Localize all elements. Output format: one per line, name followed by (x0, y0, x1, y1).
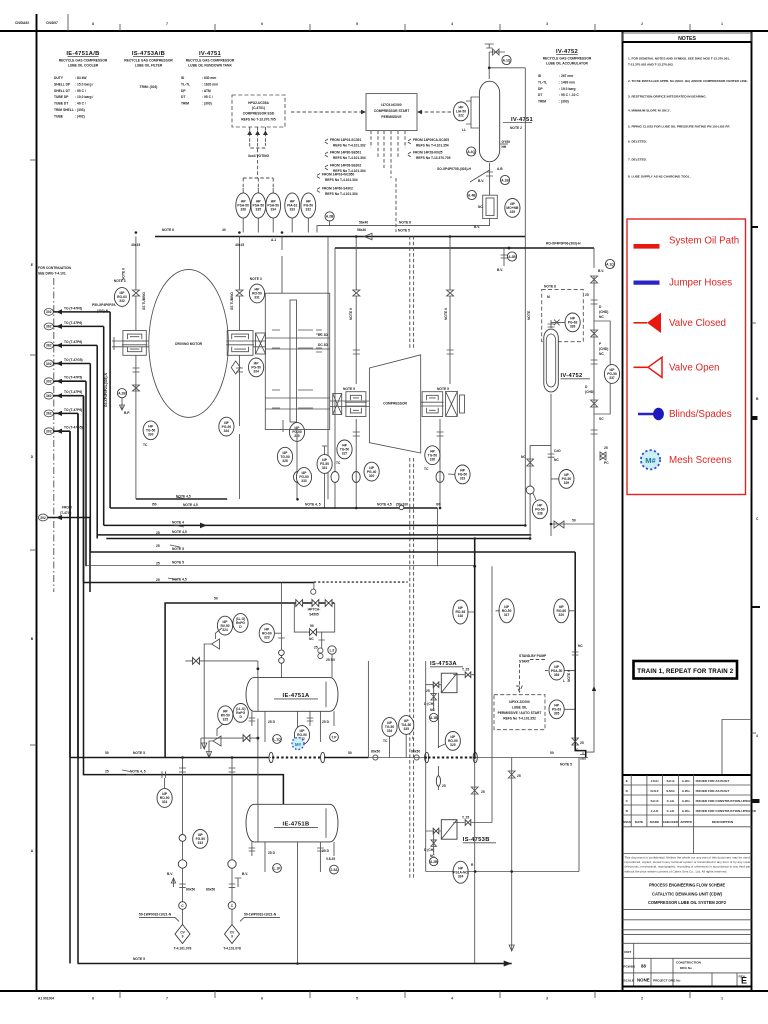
continuation row 362 TO (T-47P6) (44, 408, 82, 417)
svg-text:NOTE 8: NOTE 8 (399, 221, 411, 225)
instrument FG-50-333b (296, 468, 311, 487)
svg-text:336: 336 (240, 208, 246, 212)
instrument PG-50-337 (604, 365, 619, 384)
svg-text:25 D: 25 D (268, 720, 276, 724)
svg-text:L: L (412, 736, 414, 740)
svg-text:TUBE: TUBE (54, 114, 64, 118)
accum right column (551, 248, 598, 752)
svg-text:25: 25 (314, 646, 318, 650)
filter A outlet valve (465, 672, 471, 678)
svg-text:338: 338 (570, 325, 576, 329)
svg-text:302: 302 (46, 310, 52, 314)
instrument PSA-50-336 (236, 193, 251, 218)
svg-text:NOTE 4, 5: NOTE 4, 5 (130, 770, 146, 774)
notes text (628, 57, 748, 179)
oil supply header to bearings (155, 236, 525, 238)
revision table (622, 775, 757, 827)
relief B discharge (206, 746, 211, 758)
drain header NOTE 5 y565 (86, 561, 475, 566)
svg-text:302: 302 (46, 380, 52, 384)
instrument TG-50-330 (143, 421, 158, 440)
drain B BV (206, 872, 248, 892)
svg-text:TO (T-47G5): TO (T-47G5) (64, 358, 83, 362)
svg-text:B.V.: B.V. (167, 872, 173, 876)
svg-text:8: 8 (92, 997, 94, 1001)
svg-text:3. RESTRICTION ORIFICE INTEGRA: 3. RESTRICTION ORIFICE INTEGRATED IN BEA… (628, 94, 707, 98)
svg-text:S.K.K: S.K.K (650, 799, 659, 803)
i00 label (436, 503, 441, 507)
svg-text:CN/D97: CN/D97 (46, 21, 58, 25)
instrument FG-50-333 (193, 830, 208, 849)
svg-text:IV-4752: IV-4752 (561, 373, 583, 379)
svg-text:25: 25 (580, 741, 584, 745)
continuation row 362 TO (T-47P6) (44, 321, 103, 330)
svg-text:B.V.: B.V. (598, 269, 604, 273)
nc bypass (309, 637, 314, 641)
svg-text:80x50: 80x50 (206, 888, 215, 892)
svg-text:G0-XP4P0P24-(303)-N: G0-XP4P0P24-(303)-N (104, 372, 108, 407)
rundown tank IV-4751 (479, 81, 499, 162)
svg-text:I50: I50 (152, 503, 157, 507)
svg-text:25: 25 (426, 689, 430, 693)
svg-text:A.1Q: A.1Q (606, 262, 614, 266)
instrument RO-60-323 (259, 624, 274, 643)
svg-text:C.J.E: C.J.E (667, 799, 675, 803)
instrument PG-50-339 (559, 470, 574, 489)
svg-text:2.3A: 2.3A (331, 868, 339, 872)
svg-text:FROM 14P03-SC301: FROM 14P03-SC301 (330, 138, 361, 142)
svg-text:DRG No: DRG No (680, 966, 692, 970)
note3 l (114, 279, 126, 283)
rv B inlet line (201, 738, 258, 749)
svg-text:B.V.: B.V. (497, 268, 503, 272)
svg-text:REFS No T-4.101.304: REFS No T-4.101.304 (325, 192, 358, 196)
svg-text:TRIM: TRIM (538, 100, 546, 104)
left zone ticks (30, 160, 37, 853)
note6 comp l (349, 308, 353, 320)
svg-text:TRAIN 1, REPEAT FOR TRAIN 2: TRAIN 1, REPEAT FOR TRAIN 2 (637, 668, 733, 675)
25d a1 (268, 720, 276, 724)
svg-text:: 630 mm: : 630 mm (202, 76, 216, 80)
compressor (369, 355, 420, 453)
svg-text:I4PXX-SC000: I4PXX-SC000 (509, 700, 530, 704)
svg-text:TRIM: (303): TRIM: (303) (140, 85, 158, 89)
instrument PG-50-332 (301, 193, 316, 218)
svg-text:329: 329 (510, 210, 516, 214)
branch to vessel (331, 654, 333, 677)
gearbox supply drop (281, 237, 283, 294)
vessel B bottom nozzles (249, 842, 334, 964)
slope marks (168, 497, 186, 580)
svg-text:25 NV: 25 NV (326, 658, 336, 662)
25 label a (156, 531, 160, 535)
svg-text:Mesh Screens: Mesh Screens (669, 455, 732, 466)
svg-text:334: 334 (253, 370, 259, 374)
continuation row 302 TO (T-47G5) (44, 426, 82, 435)
vessel A bottom nozzles (249, 711, 334, 742)
svg-text:NC: NC (554, 458, 559, 462)
blind spacer box (483, 195, 498, 218)
jumper hose dotted 1 (272, 757, 321, 759)
instrument PSA-50-335 (251, 193, 266, 218)
filter A drain (431, 685, 437, 711)
svg-text:333: 333 (289, 208, 295, 212)
svg-text:TC: TC (336, 461, 341, 465)
diamond check (231, 361, 240, 374)
svg-text:NOTE 6: NOTE 6 (444, 308, 448, 320)
orifice B (162, 771, 165, 778)
svg-text:A.1Q: A.1Q (503, 58, 511, 62)
nozzle label2 (502, 145, 507, 149)
svg-text:REFS No T-4.101.304: REFS No T-4.101.304 (325, 178, 358, 182)
svg-text:50: 50 (310, 624, 314, 628)
motor drain left (133, 355, 140, 499)
svg-text:80x50: 80x50 (371, 750, 380, 754)
permissive from labels (330, 138, 451, 173)
SO line label (437, 167, 472, 171)
motor shaft (112, 337, 265, 350)
svg-text:M#: M# (645, 456, 656, 465)
instrument PS-63-335c (549, 700, 564, 719)
svg-text:6: 6 (261, 997, 263, 1001)
svg-text:REFS No T-4.101.304: REFS No T-4.101.304 (333, 156, 366, 160)
connector 7P a (330, 733, 339, 742)
svg-text:: 95 C /: : 95 C / (202, 95, 213, 99)
svg-text:A.B: A.B (497, 167, 503, 171)
svg-text:NOTE 3: NOTE 3 (114, 279, 126, 283)
svg-text:RO-XP4P0P06-(303)-H: RO-XP4P0P06-(303)-H (546, 242, 581, 246)
svg-text:5: 5 (356, 997, 358, 1001)
svg-text:40x15: 40x15 (235, 243, 244, 247)
svg-text:RECYCLE GAS COMPRESSOR: RECYCLE GAS COMPRESSOR (59, 59, 108, 63)
tc label (143, 443, 148, 447)
standby label 2 (519, 660, 530, 664)
drain 50-1WP0032-I1021-N (178, 858, 186, 925)
IV-4751 gauge bridle (466, 97, 479, 128)
svg-text:337: 337 (609, 376, 615, 380)
svg-text:TO (T-47P6): TO (T-47P6) (64, 390, 82, 394)
svg-text:25 D: 25 D (322, 720, 330, 724)
line number label (546, 242, 581, 246)
p2 (599, 347, 608, 351)
legend Blinds/Spades (638, 408, 732, 420)
manifold valve 1 (296, 600, 303, 607)
connector A.1B (500, 175, 509, 184)
SO diagonal line (470, 170, 490, 182)
svg-text:80x50: 80x50 (411, 750, 420, 754)
accumulator header (335, 247, 594, 249)
connector A.2B (325, 212, 334, 221)
svg-text:: 267 mm: : 267 mm (559, 74, 573, 78)
svg-text:2: 2 (641, 22, 643, 26)
svg-text:RECYCLE GAS COMPRESSOR: RECYCLE GAS COMPRESSOR (124, 59, 173, 63)
accum header left drop (334, 248, 336, 509)
dotted line above filters (311, 582, 408, 594)
svg-text:324: 324 (162, 800, 168, 804)
svg-text:Jumper Hoses: Jumper Hoses (669, 278, 732, 289)
svg-text:50-1WP0032-I1021-N: 50-1WP0032-I1021-N (139, 912, 172, 916)
svg-text:4: 4 (451, 22, 453, 26)
mesh screen M1 (292, 738, 304, 750)
svg-text:1. FOR GENERAL NOTES AND SYMBO: 1. FOR GENERAL NOTES AND SYMBOL SEE DWG … (628, 57, 730, 61)
svg-text:E: E (741, 976, 747, 986)
cooler vessel IE-4751A (246, 678, 338, 712)
svg-text:M#: M# (295, 742, 302, 747)
svg-text:S.M.K: S.M.K (666, 789, 675, 793)
svg-text:25: 25 (517, 774, 521, 778)
drain label 50-1WP0031-I1021-N (223, 947, 241, 951)
svg-text:(C-4701): (C-4701) (252, 106, 265, 110)
continuation drop 4 (89, 364, 91, 553)
svg-text:ISSUED FOR AS BUILT: ISSUED FOR AS BUILT (696, 789, 730, 793)
svg-text:NOTE 4, 5: NOTE 4, 5 (305, 503, 321, 507)
svg-text:DATE: DATE (635, 820, 643, 824)
svg-text:TO (T-47P6): TO (T-47P6) (64, 408, 82, 412)
tia stubs (390, 734, 407, 757)
instrument PSA-50-334 (266, 193, 281, 218)
instrument RO-90-322 (294, 726, 309, 745)
svg-text:System Oil Path: System Oil Path (669, 236, 739, 247)
svg-text:: 1499 mm: : 1499 mm (559, 80, 575, 84)
filter B nc (430, 854, 435, 858)
vent valve 25 right (600, 446, 609, 465)
continuation note (38, 266, 72, 276)
svg-text:A.W.L: A.W.L (682, 779, 691, 783)
svg-text:C≠D: C≠D (554, 449, 561, 453)
A2B drop (120, 398, 125, 410)
coupling compressor end (446, 391, 465, 416)
title sub box (722, 720, 752, 776)
svg-text:ISSUED FOR CONSTRUCTION-UPDATE: ISSUED FOR CONSTRUCTION-UPDATED (696, 809, 757, 813)
IS-4753B label (463, 837, 496, 843)
instrument PG-50-334b (219, 417, 234, 436)
svg-text:25 D: 25 D (322, 849, 330, 853)
drain 50-1WP0031-I1021-N (228, 858, 236, 925)
continuation row 302 TO (T-47G5) (44, 358, 90, 367)
supply left drop (327, 237, 329, 500)
junction dot (473, 565, 476, 568)
from T-47G row (38, 506, 90, 593)
drain collect left (136, 498, 227, 500)
accumulator IV-4752 (544, 329, 559, 392)
svg-text:IE-4751A: IE-4751A (283, 693, 310, 699)
bearing supply drop right (236, 237, 243, 331)
drain funnel 50-1WP0032-I1021-N (175, 925, 190, 944)
instrument TIA-50-335c (399, 716, 414, 735)
svg-text:6: 6 (261, 22, 263, 26)
continuation drop 2 (103, 326, 105, 525)
riser to filter area (367, 661, 369, 758)
svg-text:TRIM: TRIM (181, 102, 189, 106)
standby pump riser (575, 552, 586, 758)
svg-text:335: 335 (403, 727, 409, 731)
svg-text:CONSTRUCTION: CONSTRUCTION (676, 961, 702, 965)
outlet continues (317, 219, 490, 233)
cooler vessel IE-4751B (246, 804, 338, 842)
legend box (627, 219, 746, 495)
svg-text:FROM 14P80-SE501: FROM 14P80-SE501 (330, 151, 361, 155)
continuation drop 5 (85, 381, 87, 566)
tc filter (383, 739, 388, 743)
drain A vertical (179, 758, 186, 859)
ss tubing r (230, 292, 234, 310)
svg-text:NC: NC (309, 637, 314, 641)
svg-text:B.V.: B.V. (242, 872, 248, 876)
instrument RO-63-332 (114, 288, 129, 307)
instrument RO-93-316 (453, 600, 468, 624)
bottom ruler line (0, 990, 768, 992)
svg-text:25: 25 (481, 790, 485, 794)
svg-text:I4P7CA-: I4P7CA- (308, 608, 321, 612)
svg-text:TO (T-47P6): TO (T-47P6) (64, 340, 82, 344)
svg-text:A.1: A.1 (271, 238, 276, 242)
svg-text:325: 325 (450, 743, 456, 747)
flow arrow supply (364, 233, 372, 239)
svg-text:(303)-N: (303)-N (97, 309, 109, 313)
svg-text:TL-TL: TL-TL (181, 82, 190, 86)
riser drain to return (437, 508, 439, 566)
svg-text:3: 3 (546, 997, 548, 1001)
BV label 2 (474, 225, 480, 229)
svg-text:NOTE 6: NOTE 6 (162, 228, 174, 232)
svg-text:50: 50 (572, 519, 576, 523)
drain B vertical (229, 758, 236, 859)
svg-text:IS-4753A: IS-4753A (430, 661, 457, 667)
svg-text:331: 331 (322, 466, 328, 470)
IV-4751 tag (503, 117, 534, 130)
svg-text:LUBE OIL FILTER: LUBE OIL FILTER (135, 64, 163, 68)
svg-text:COMPRESSOR ESD: COMPRESSOR ESD (243, 112, 275, 116)
svg-text:TO (T-47P6): TO (T-47P6) (64, 321, 82, 325)
svg-text:I00: I00 (436, 503, 441, 507)
relief A discharge (202, 661, 207, 749)
svg-text:L: L (563, 679, 565, 683)
coupling motor-gearbox (256, 333, 266, 354)
instrument TG-50-326 (425, 446, 440, 465)
svg-text:ISSUED FOR CONSTRUCTION-UPDATE: ISSUED FOR CONSTRUCTION-UPDATED (696, 799, 757, 803)
motor drain right (236, 355, 243, 499)
connector filter A (430, 713, 439, 721)
50 label manifold (214, 597, 218, 601)
svg-text:: 95 C / -10 C: : 95 C / -10 C (559, 93, 579, 97)
filter B line to A (426, 823, 492, 832)
x475 below header (474, 758, 476, 964)
dashed interconnect (270, 757, 271, 759)
relief valve A (204, 628, 222, 661)
accumulator top stub (548, 320, 555, 328)
vessel top to right line (489, 67, 525, 69)
rv A inlet valve (193, 658, 200, 665)
instrument PG-63-338 (565, 313, 580, 332)
tap connector stub (329, 221, 331, 226)
vessel side stub (500, 143, 508, 145)
filter B d (424, 848, 434, 852)
ro stub (438, 744, 445, 747)
instrument PG-40-320 (364, 462, 379, 481)
permissive signal in left (291, 110, 366, 114)
sc (599, 417, 604, 421)
svg-text:NOTE 5: NOTE 5 (343, 387, 355, 391)
p3 (599, 352, 604, 356)
svg-text:T-13.370.002 AND T-13.370.003.: T-13.370.002 AND T-13.370.003. (628, 63, 674, 67)
ESD signal wires (247, 127, 268, 160)
svg-text:without the prior written cons: without the prior written consent of Cal… (625, 869, 728, 873)
svg-text:PERMISSIVE / AUTO START: PERMISSIVE / AUTO START (498, 711, 542, 715)
gearbox output shaft (265, 398, 329, 409)
left border (36, 14, 38, 991)
cooler return header (165, 603, 334, 758)
svg-text:TC: TC (383, 739, 388, 743)
svg-text:7: 7 (166, 997, 168, 1001)
tank IV-4751 specs label block (181, 51, 235, 106)
svg-text:56x40: 56x40 (359, 221, 368, 225)
svg-text:This document is confidential.: This document is confidential. Neither t… (625, 856, 751, 860)
fg stub (282, 420, 284, 432)
bubble stubs row (468, 611, 575, 612)
filter A inlet valve (433, 682, 439, 688)
bottom feeder vertical (77, 758, 79, 964)
ESD tap fan-out (243, 160, 273, 188)
svg-text:TC: TC (143, 443, 148, 447)
svg-text:8. LUBE SUPPLY AS N2 CHARGING: 8. LUBE SUPPLY AS N2 CHARGING TOOL. (628, 174, 691, 178)
svg-text:336: 336 (554, 673, 560, 677)
manifold valve 3 (325, 600, 332, 607)
25 label d (156, 578, 160, 582)
header end fitting (576, 748, 586, 760)
svg-text:NOTE 4,5: NOTE 4,5 (172, 530, 187, 534)
motor bearing right (226, 331, 254, 356)
jumper hose dotted 2 (428, 757, 474, 759)
svg-text:5: 5 (356, 22, 358, 26)
svg-text:320: 320 (369, 474, 375, 478)
drain header NOTE 4,5 y499 (136, 494, 227, 499)
svg-text:S4505: S4505 (309, 613, 319, 617)
svg-text:A.4B: A.4B (468, 193, 476, 197)
instrument RV-50-325 (218, 706, 233, 725)
svg-text:PC: PC (604, 461, 609, 465)
bp label (124, 411, 130, 415)
top-left revision cells (15, 14, 68, 31)
svg-text:PROJECT DRG No: PROJECT DRG No (653, 979, 680, 983)
fg319 link (448, 473, 455, 475)
svg-text:COMPRESSOR: COMPRESSOR (383, 402, 407, 406)
svg-text:NC: NC (578, 644, 583, 648)
svg-text:331: 331 (254, 296, 260, 300)
svg-text:IS-4753B: IS-4753B (463, 837, 490, 843)
svg-text:NOTE 4,5: NOTE 4,5 (183, 503, 198, 507)
BV label 3 (497, 268, 503, 272)
svg-text:HH: HH (502, 145, 507, 149)
drain header NOTE 4 y525 (104, 520, 526, 525)
svg-text:NOTES: NOTES (678, 36, 696, 42)
ro90 stub (164, 778, 166, 789)
connector A.4Q (467, 147, 476, 156)
note5 header (133, 751, 145, 755)
legend Jumper Hoses (634, 278, 733, 289)
filter loop right (453, 566, 492, 822)
svg-text:L.1P: L.1P (274, 866, 282, 870)
svg-text:4: 4 (756, 734, 758, 738)
comp drain left (353, 419, 360, 509)
right border (751, 31, 753, 991)
cooler inlet line 25 (84, 396, 284, 805)
25d b2 (322, 849, 330, 853)
svg-text:325: 325 (223, 718, 229, 722)
svg-text:TL-TL: TL-TL (538, 80, 547, 84)
svg-text:25: 25 (156, 544, 160, 548)
right panel divider (622, 31, 624, 991)
svg-text:88: 88 (641, 964, 646, 969)
